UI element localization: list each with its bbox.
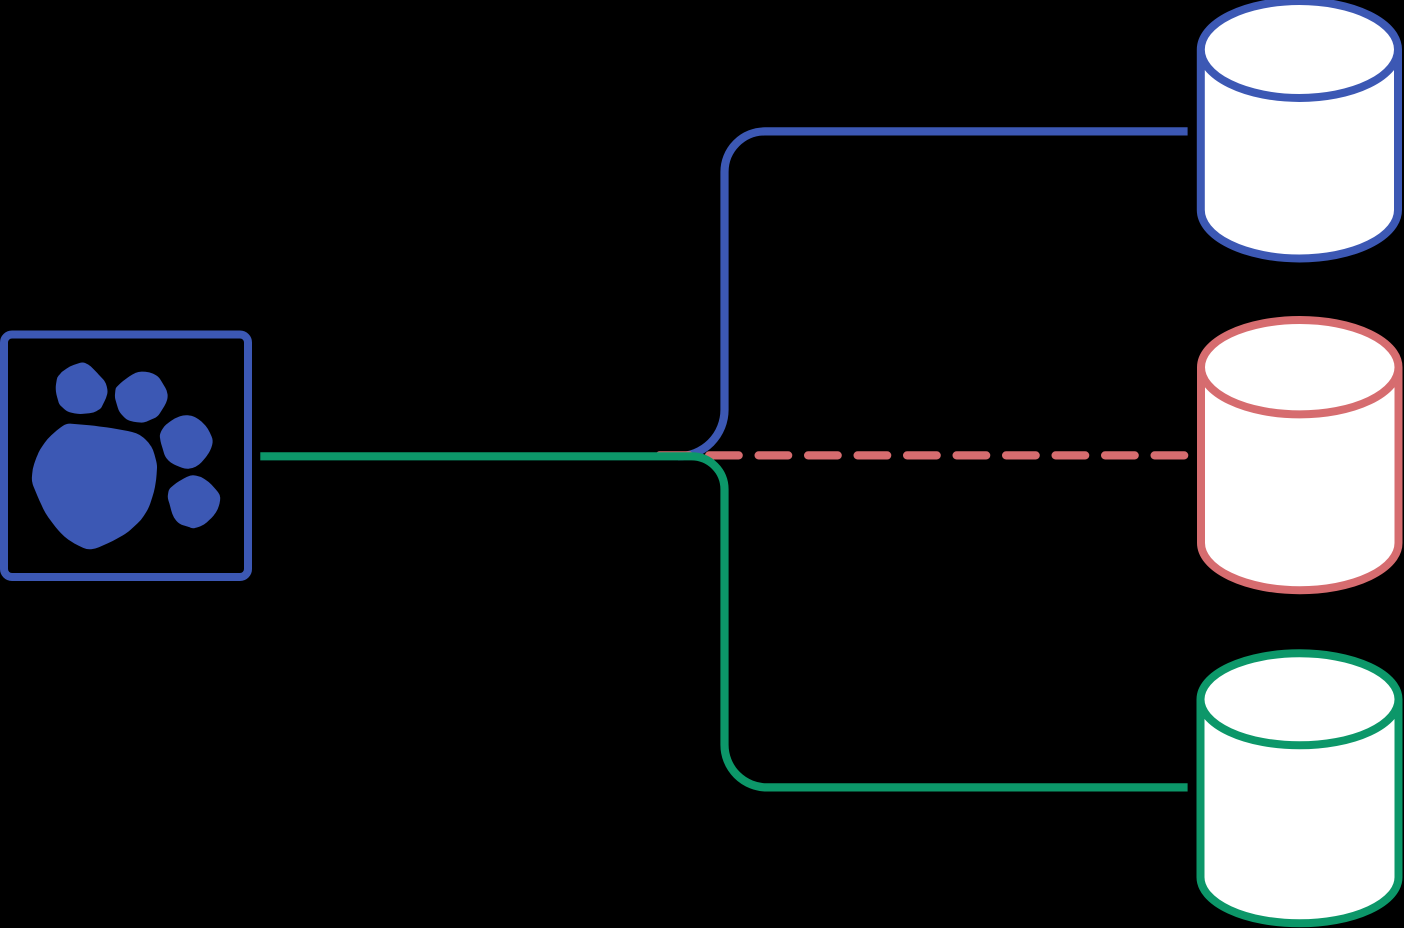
database cylinder bottom (green) <box>1201 653 1399 923</box>
paw icon: toe pad right-upper <box>160 415 213 469</box>
paw icon: main pad <box>32 424 157 550</box>
paw app box (rounded square frame) <box>4 335 248 578</box>
database cylinder top (blue) <box>1201 1 1398 258</box>
wire: red dashed connector (center) <box>660 451 1189 459</box>
paw icon: toe pad right-lower <box>168 475 220 528</box>
wire: green connector (paw to bottom database) <box>260 456 1187 787</box>
paw icon: toe pad top-left <box>56 363 108 414</box>
database cylinder middle (red) <box>1201 320 1399 590</box>
wire: blue connector (paw to top database) <box>678 131 1188 456</box>
paw icon: toe pad top-middle <box>115 372 168 423</box>
